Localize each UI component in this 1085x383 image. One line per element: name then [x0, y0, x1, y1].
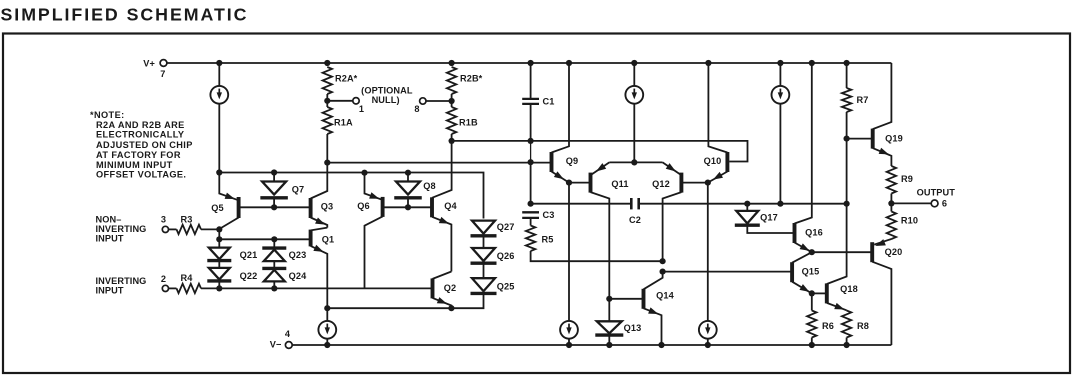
- wire output: [891, 202, 931, 204]
- node Q7 cathode: [271, 204, 277, 210]
- wire pin2 to R4: [169, 287, 177, 289]
- wire Q17 to Q16 base: [747, 225, 794, 233]
- svg-text:Q10: Q10: [704, 156, 722, 166]
- node CS3 on comp line: [777, 201, 783, 207]
- arrow Q18 emitter: [834, 303, 844, 310]
- svg-text:INVERTING: INVERTING: [96, 224, 147, 234]
- svg-text:C1: C1: [543, 97, 555, 107]
- wire Q14 emitter: [644, 308, 662, 345]
- svg-text:R6: R6: [822, 321, 834, 331]
- svg-text:R8: R8: [857, 321, 869, 331]
- resistor R3: [177, 225, 202, 234]
- wire Q2 emitter: [433, 298, 452, 308]
- current source I5: [560, 321, 578, 339]
- resistor R1B: [447, 107, 456, 134]
- node top rail x812: [809, 60, 815, 66]
- wire CS2 top: [633, 63, 635, 86]
- diode Q24: [264, 270, 285, 282]
- wire Q18 base: [812, 292, 827, 294]
- svg-text:7: 7: [160, 69, 165, 79]
- node bottom rail x609: [606, 342, 612, 348]
- wire Q10 collector: [708, 63, 727, 153]
- svg-text:Q9: Q9: [566, 156, 578, 166]
- wire C1 bottom: [530, 104, 532, 141]
- wire R7 to Q19 base: [846, 112, 848, 139]
- node bottom rail x846: [844, 342, 850, 348]
- svg-text:C3: C3: [543, 210, 555, 220]
- svg-text:R2B*: R2B*: [460, 74, 483, 84]
- wire Q23 top: [273, 239, 275, 248]
- wire Q13 top: [608, 299, 610, 322]
- svg-text:Q14: Q14: [656, 291, 674, 301]
- node R1A bottom: [324, 160, 330, 166]
- wire Q9 collector: [552, 63, 570, 153]
- wire Q21-Q22: [218, 261, 220, 268]
- wire Q22 bottom: [218, 281, 220, 289]
- svg-text:R1B: R1B: [459, 118, 478, 128]
- resistor R2A: [323, 67, 332, 94]
- arrow Q1 emitter: [313, 245, 323, 252]
- wire Q11/Q12 tail line: [609, 161, 662, 163]
- diode Q17: [736, 211, 758, 224]
- wire Q21 top: [218, 239, 220, 247]
- wire CS3 down: [779, 104, 781, 204]
- svg-text:Q8: Q8: [423, 181, 435, 191]
- wire comp line right: [639, 203, 847, 205]
- svg-text:6: 6: [942, 199, 947, 209]
- svg-text:R5: R5: [542, 235, 554, 245]
- wire Q20 collector: [872, 262, 891, 345]
- node bottom rail x708: [705, 342, 711, 348]
- arrow Q15 emitter: [799, 284, 809, 292]
- wire Q6 collector: [365, 216, 383, 288]
- wire R1A down: [326, 134, 328, 163]
- transistor Q12: [679, 173, 683, 193]
- node bottom rail x812: [809, 342, 815, 348]
- wire input node down: [218, 229, 220, 239]
- transistor Q5: [237, 197, 241, 218]
- svg-text:2: 2: [161, 274, 166, 284]
- wire R7 top: [846, 63, 848, 88]
- wire Q15 base line: [663, 271, 793, 273]
- wire Q18 emitter: [827, 303, 847, 310]
- node Q21 top: [216, 236, 222, 242]
- svg-text:Q25: Q25: [497, 282, 515, 292]
- wire R8 top: [846, 309, 848, 311]
- wire Q13 bottom: [608, 335, 610, 345]
- wire Q11 collector: [591, 192, 610, 299]
- wire Q4 emitter: [432, 217, 451, 272]
- wire y308 line: [327, 293, 483, 308]
- svg-text:8: 8: [414, 104, 419, 114]
- current source I6: [699, 321, 717, 339]
- arrow Q6 emitter: [369, 192, 379, 198]
- node Q16 emitter junction: [809, 249, 815, 255]
- wire CS1 top: [218, 63, 220, 86]
- wire down to C3: [530, 162, 532, 204]
- svg-text:Q23: Q23: [289, 250, 307, 260]
- svg-text:Q19: Q19: [885, 133, 903, 143]
- resistor R9: [887, 166, 896, 194]
- transistor Q16: [793, 223, 797, 243]
- wire R1B line to Q10 base: [452, 141, 748, 162]
- svg-text:SIMPLIFIED SCHEMATIC: SIMPLIFIED SCHEMATIC: [1, 5, 247, 25]
- node null-8 junction: [449, 98, 455, 104]
- terminal pin 3: [162, 226, 168, 232]
- arrow Q4 emitter: [439, 217, 449, 224]
- wire R2A-R1A: [326, 94, 328, 107]
- transistor Q14: [642, 289, 646, 309]
- node tail center: [631, 159, 637, 165]
- svg-text:NULL): NULL): [372, 95, 400, 105]
- wire Q11 emitter: [591, 162, 610, 175]
- wire Q12 emitter: [663, 162, 682, 175]
- node R1B bottom: [449, 138, 455, 144]
- wire Q14 base: [609, 298, 643, 300]
- wire Q8 bottom: [407, 198, 409, 208]
- node top rail x530: [528, 60, 534, 66]
- svg-text:INPUT: INPUT: [96, 234, 124, 244]
- wire CS2 to Q11/Q12 tail: [633, 104, 635, 162]
- svg-text:R4: R4: [181, 273, 194, 283]
- wire CS3 top: [779, 63, 781, 86]
- diode Q26: [472, 248, 495, 261]
- arrow Q3 emitter: [315, 218, 325, 225]
- transistor Q19: [871, 129, 875, 149]
- node top rail x708: [705, 60, 711, 66]
- svg-text:Q16: Q16: [805, 227, 823, 237]
- arrow Q19 emitter: [879, 148, 889, 155]
- wire Q6 emitter feed: [365, 173, 383, 200]
- transistor Q3: [309, 198, 313, 218]
- arrow Q10 emitter: [713, 172, 723, 180]
- wire C3-R5: [530, 218, 532, 226]
- node top rail x569: [566, 60, 572, 66]
- wire C1 top: [530, 63, 532, 99]
- wire CS4 stubs: [326, 308, 328, 345]
- wire Q19 base: [847, 138, 873, 140]
- svg-text:MINIMUM INPUT: MINIMUM INPUT: [96, 160, 173, 170]
- node Q10 emitter: [705, 180, 711, 186]
- svg-text:R10: R10: [901, 216, 918, 226]
- wire Q16 emitter: [795, 243, 812, 253]
- node comp line end: [844, 201, 850, 207]
- node Q8 anode: [405, 170, 411, 176]
- diode Q22: [209, 268, 230, 280]
- node top rail x634: [631, 60, 637, 66]
- svg-text:Q27: Q27: [497, 222, 515, 232]
- wire Q16 collector: [795, 63, 812, 224]
- resistor R4: [177, 284, 202, 293]
- svg-text:R3: R3: [181, 215, 193, 225]
- node null-1 junction: [324, 98, 330, 104]
- wire R6 top: [811, 293, 813, 310]
- svg-text:Q12: Q12: [652, 179, 670, 189]
- wire pin3 to R3: [169, 228, 177, 230]
- arrow Q2 emitter: [437, 297, 447, 304]
- wire Q5-Q3 base line: [239, 206, 311, 208]
- svg-text:Q20: Q20: [885, 247, 903, 257]
- transistor Q15: [790, 262, 794, 282]
- V+ terminal pin 7: [160, 60, 167, 67]
- arrow Q12 emitter: [666, 163, 676, 171]
- node Q7 anode: [271, 169, 277, 175]
- node Q1 emitter line: [324, 305, 330, 311]
- transistor Q9: [550, 152, 554, 172]
- svg-text:C2: C2: [629, 215, 641, 225]
- arrow Q9 emitter: [554, 171, 564, 179]
- diode Q13: [597, 321, 622, 333]
- arrow Q5 emitter: [225, 193, 235, 199]
- svg-text:ADJUSTED ON CHIP: ADJUSTED ON CHIP: [96, 140, 193, 150]
- svg-text:*NOTE:: *NOTE:: [90, 110, 125, 120]
- wire Q5 collector: [219, 218, 238, 230]
- diode Q7: [262, 182, 286, 195]
- wire comp line left: [531, 203, 632, 205]
- wire Q7 bottom: [273, 198, 275, 208]
- current source I2: [625, 86, 643, 104]
- wire Q27-Q26: [483, 236, 485, 248]
- node C3 top: [528, 201, 534, 207]
- svg-text:R2A AND R2B ARE: R2A AND R2B ARE: [96, 120, 185, 130]
- wire emitter bus y172: [219, 173, 483, 219]
- wire R5 to Q12 collector line: [531, 251, 663, 261]
- svg-text:R1A: R1A: [334, 118, 353, 128]
- wire Q9 emitter: [552, 172, 570, 183]
- wire Q2 collector: [433, 272, 452, 279]
- arrow Q11 emitter: [596, 163, 606, 171]
- wire to null pin 1: [327, 100, 353, 102]
- wire R6 bottom: [811, 338, 813, 346]
- wire Q19base to comp line: [846, 139, 848, 204]
- terminal output pin 6: [931, 200, 938, 207]
- node Q22 bottom: [216, 285, 222, 291]
- svg-text:OUTPUT: OUTPUT: [917, 187, 956, 197]
- svg-text:Q21: Q21: [240, 250, 258, 260]
- svg-text:V−: V−: [270, 340, 282, 350]
- node Q2 emitter: [448, 305, 454, 311]
- terminal null pin 1: [353, 98, 359, 104]
- wire R3 to node: [201, 228, 219, 230]
- svg-text:Q7: Q7: [292, 185, 304, 195]
- wire V- rail: [292, 344, 891, 346]
- svg-text:ELECTRONICALLY: ELECTRONICALLY: [96, 130, 184, 140]
- wire Q20 base line: [812, 251, 872, 253]
- transistor Q6: [381, 197, 385, 217]
- wire Q23-Q24: [273, 261, 275, 268]
- svg-text:Q15: Q15: [802, 267, 820, 277]
- node Q14 base junction: [606, 296, 612, 302]
- wire Q3 collector: [311, 163, 328, 199]
- wire Q12 collector: [663, 192, 682, 261]
- capacitor C1: [522, 98, 539, 100]
- node bottom rail x661: [658, 342, 664, 348]
- svg-text:Q26: Q26: [497, 251, 515, 261]
- wire V+ rail: [167, 62, 892, 64]
- current source I4: [318, 321, 336, 339]
- wire to null pin 8: [426, 100, 452, 102]
- arrow Q14 emitter: [648, 307, 658, 314]
- svg-text:Q22: Q22: [240, 271, 258, 281]
- resistor R1A: [323, 107, 332, 134]
- terminal null pin 8: [420, 98, 426, 104]
- node bottom rail x327: [324, 342, 330, 348]
- diode Q23: [264, 250, 285, 262]
- svg-text:Q13: Q13: [624, 323, 642, 333]
- svg-text:INPUT: INPUT: [96, 285, 124, 295]
- svg-text:INVERTING: INVERTING: [96, 276, 147, 286]
- diode Q27: [472, 221, 495, 234]
- wire Q10 emitter: [708, 172, 728, 183]
- wire Q9 base line: [327, 162, 551, 164]
- wire Q1 collector: [311, 228, 328, 231]
- wire Q15 emitter: [792, 282, 812, 294]
- capacitor C3: [522, 211, 539, 213]
- transistor Q20: [870, 242, 874, 262]
- wire R1B down: [451, 134, 453, 141]
- svg-text:AT FACTORY FOR: AT FACTORY FOR: [96, 150, 181, 160]
- svg-text:R9: R9: [901, 174, 913, 184]
- node Q24 bottom: [271, 285, 277, 291]
- wire Q19 emitter: [873, 148, 892, 166]
- node Q5 emitter line: [216, 169, 222, 175]
- svg-text:R2A*: R2A*: [335, 74, 358, 84]
- wire CS6 stubs: [707, 183, 709, 345]
- svg-text:V+: V+: [143, 59, 155, 69]
- current source I3: [772, 86, 790, 104]
- resistor R2B: [447, 67, 456, 94]
- wire R2B-R1B: [451, 94, 453, 107]
- wire Q15 collector: [792, 252, 812, 263]
- arrow Q16 emitter: [800, 243, 810, 251]
- wire R10 to Q20 emitter: [874, 239, 891, 245]
- current source I1: [210, 86, 228, 104]
- wire Q17 top: [746, 204, 748, 211]
- terminal pin 2: [162, 285, 168, 291]
- node C1 bottom: [528, 138, 534, 144]
- node output: [888, 200, 894, 206]
- wire Q19 collector: [873, 63, 892, 129]
- transistor Q1: [309, 230, 313, 247]
- node top rail x327: [324, 60, 330, 66]
- svg-text:Q6: Q6: [357, 201, 369, 211]
- node top rail x219: [216, 60, 222, 66]
- wire Q4 collector: [432, 141, 452, 198]
- transistor Q2: [431, 278, 435, 298]
- node top rail x780: [777, 60, 783, 66]
- node Q17 anode: [744, 201, 750, 207]
- resistor R6: [807, 311, 816, 338]
- wire Q1 base line: [219, 238, 310, 240]
- wire CS5 stubs: [568, 183, 570, 345]
- node top rail x846: [844, 60, 850, 66]
- wire Q7 top: [273, 173, 275, 182]
- diode Q21: [209, 248, 230, 260]
- svg-text:Q1: Q1: [322, 235, 334, 245]
- svg-text:OFFSET VOLTAGE.: OFFSET VOLTAGE.: [96, 170, 186, 180]
- wire Q18 collector: [827, 204, 847, 284]
- diode Q25: [472, 278, 495, 291]
- transistor Q11: [589, 173, 593, 193]
- wire CS1 to Q5 emitter line: [218, 104, 220, 173]
- wire R9 to output node: [890, 194, 892, 212]
- wire Q14 collector: [644, 272, 663, 290]
- resistor R8: [842, 311, 851, 338]
- wire Q6-Q4 base line: [383, 206, 432, 208]
- resistor R5: [526, 226, 535, 252]
- svg-text:Q17: Q17: [760, 213, 778, 223]
- svg-text:R7: R7: [857, 95, 869, 105]
- svg-text:NON–: NON–: [96, 215, 122, 225]
- node non-inv input: [216, 226, 222, 232]
- svg-text:1: 1: [359, 104, 364, 114]
- node Q9 base line x530: [528, 159, 534, 165]
- node bottom rail x569: [566, 342, 572, 348]
- wire Q12 base: [681, 182, 707, 184]
- node Q15 base line start: [660, 269, 666, 275]
- node Q9 emitter: [566, 180, 572, 186]
- svg-text:3: 3: [161, 215, 166, 225]
- wire Q1 emitter: [311, 246, 328, 308]
- svg-text:Q11: Q11: [611, 179, 628, 189]
- svg-text:Q5: Q5: [211, 203, 223, 213]
- node Q15 emitter junction: [809, 290, 815, 296]
- svg-text:4: 4: [285, 329, 291, 339]
- resistor R10: [887, 212, 896, 240]
- transistor Q10: [725, 152, 729, 172]
- arrow Q20 emitter: [875, 239, 886, 246]
- svg-text:Q2: Q2: [444, 283, 456, 293]
- svg-text:Q4: Q4: [444, 201, 457, 211]
- transistor Q4: [430, 197, 434, 217]
- wire Q8 top: [407, 173, 409, 182]
- wire R4 to Q2 base: [201, 287, 433, 289]
- node Q8 cathode: [405, 204, 411, 210]
- capacitor C2: [630, 198, 633, 209]
- node Q19 base: [844, 136, 850, 142]
- wire Q11 base: [569, 182, 591, 184]
- wire R8 bottom: [846, 338, 848, 346]
- node Q23 top: [271, 236, 277, 242]
- svg-text:Q3: Q3: [321, 202, 333, 212]
- wire Q5 emitter feed: [219, 173, 238, 201]
- resistor R7: [842, 88, 851, 112]
- transistor Q18: [825, 283, 829, 303]
- node R5 line end: [660, 258, 666, 264]
- svg-text:Q18: Q18: [840, 284, 858, 294]
- node top rail x451: [449, 60, 455, 66]
- wire C1 node to base line: [530, 141, 532, 162]
- diode Q8: [396, 182, 420, 195]
- wire Q24 bottom: [273, 281, 275, 288]
- V- terminal pin 4: [285, 342, 292, 349]
- svg-text:Q24: Q24: [289, 271, 307, 281]
- wire Q26-Q25: [483, 263, 485, 278]
- wire Q3 emitter: [311, 218, 328, 228]
- node Q6 emitter: [361, 170, 367, 176]
